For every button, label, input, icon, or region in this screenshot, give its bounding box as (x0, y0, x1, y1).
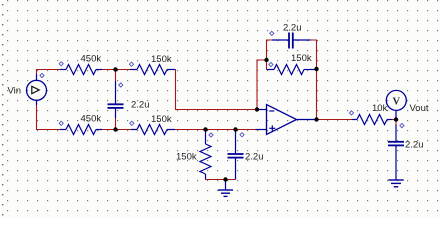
wire feedback loop right side (311, 40, 317, 120)
pin marker (400, 124, 404, 128)
pin marker (270, 31, 274, 35)
resistor R4 150k (bottom mid) (131, 125, 175, 135)
pin marker (40, 73, 44, 77)
svg-text:Vin: Vin (8, 86, 22, 97)
pin marker (240, 133, 244, 137)
node B junction (113, 127, 117, 131)
svg-text:2.2u: 2.2u (405, 139, 424, 150)
wire R3 to R4 (node B) (102, 129, 131, 131)
ground (right) (388, 180, 403, 187)
pin marker (59, 121, 63, 125)
svg-text:150k: 150k (151, 54, 172, 65)
wire op-amp output to R7 (317, 119, 353, 121)
resistor R6 150k (feedback) (267, 65, 317, 75)
wire R1 to R2 (node A) (102, 69, 130, 71)
junction inverting input (255, 107, 259, 111)
svg-text:150k: 150k (176, 152, 197, 163)
pin marker (119, 83, 123, 87)
junction op-amp output (314, 117, 318, 121)
wire bottom between R5 and C2 (206, 179, 236, 181)
svg-text:2.2u: 2.2u (283, 23, 302, 34)
wire R4 to op-amp + input (175, 129, 256, 131)
junction C2 top (233, 127, 237, 131)
op-amp U1 (256, 105, 317, 135)
wire R7 to Vout node (392, 119, 396, 121)
svg-text:2.2u: 2.2u (131, 100, 150, 111)
junction feedback left (264, 58, 268, 62)
resistor R3 450k (bottom left) (60, 125, 102, 135)
wire R2 right corner down to inverting-input row (176, 70, 258, 110)
pin marker (269, 62, 273, 66)
ground (bottom mid) (218, 180, 233, 197)
pin marker (349, 111, 353, 115)
resistor R7 10k (output) (352, 115, 392, 125)
junction ground mid (223, 177, 227, 181)
wire Vin bottom to R3 (37, 105, 61, 130)
svg-text:150k: 150k (151, 114, 172, 125)
pin marker (59, 62, 63, 66)
wire feedback loop top-left (267, 40, 273, 60)
node Vout junction (394, 117, 398, 121)
svg-text:Vout: Vout (410, 103, 429, 114)
voltmeter probe Vout (386, 90, 406, 119)
capacitor C4 2.2u (output to ground) (388, 120, 404, 181)
svg-text:150k: 150k (291, 53, 312, 64)
resistor R1 450k (top left) (60, 65, 102, 75)
capacitor C2 2.2u (vertical to ground) (228, 130, 244, 180)
node A junction (113, 67, 117, 71)
wire feedback step from - input up (257, 60, 267, 110)
svg-text:450k: 450k (81, 113, 102, 124)
svg-text:2.2u: 2.2u (245, 152, 264, 163)
svg-text:450k: 450k (81, 53, 102, 64)
resistor R5 150k (vertical to ground) (200, 130, 211, 180)
pin marker (130, 121, 134, 125)
wire feedback node down to R6 (266, 60, 268, 70)
capacitor C3 2.2u (feedback) (272, 33, 311, 49)
capacitor C1 2.2u (between rows) (108, 70, 124, 130)
resistor R2 150k (top right) (130, 65, 176, 75)
wire Vin top to R1 (37, 70, 61, 75)
junction feedback right (314, 67, 318, 71)
voltage source V1 Vin (27, 74, 47, 105)
pin marker (129, 62, 133, 66)
junction R5 top (203, 127, 207, 131)
svg-text:V: V (393, 96, 401, 107)
pin marker (209, 133, 213, 137)
svg-text:10k: 10k (372, 103, 388, 114)
